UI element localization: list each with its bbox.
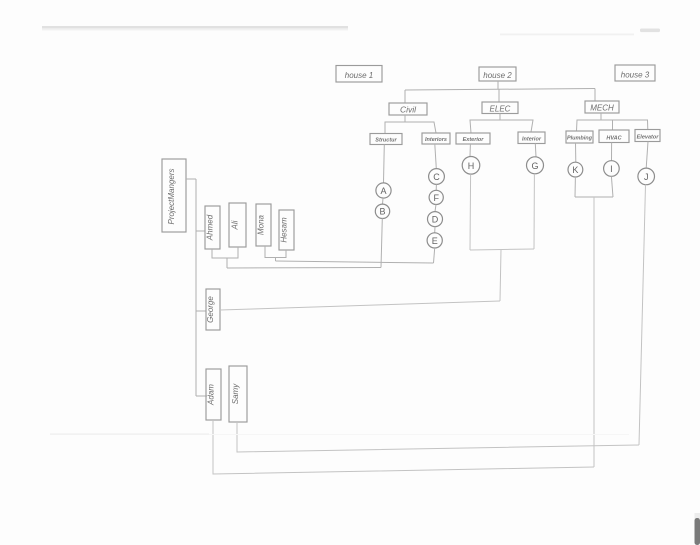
wire C to F <box>435 184 437 190</box>
scan smudge top middle <box>500 34 634 36</box>
svg-text:Plumbing: Plumbing <box>567 136 593 142</box>
wire KI drop long vertical <box>593 197 595 467</box>
faint paper crease bottom left <box>50 434 629 436</box>
wire ELEC to Interior child <box>500 120 533 132</box>
wire Exterior to H <box>469 144 471 156</box>
wire I down <box>611 176 613 197</box>
svg-text:C: C <box>433 172 440 182</box>
node D <box>428 212 443 227</box>
box Samy <box>229 366 247 422</box>
svg-text:HVAC: HVAC <box>606 136 622 142</box>
wire HVAC to I <box>611 143 613 161</box>
svg-text:J: J <box>644 172 649 182</box>
wire spine branch to George <box>196 310 206 312</box>
svg-text:house 3: house 3 <box>621 71 650 80</box>
box Ali <box>229 203 246 247</box>
svg-text:A: A <box>380 186 386 196</box>
box George <box>206 289 220 330</box>
wire Ahmed-Ali drop to bus1 <box>226 258 228 268</box>
svg-text:D: D <box>432 215 439 225</box>
svg-text:house 1: house 1 <box>345 71 373 80</box>
wire top connector bus <box>405 89 595 91</box>
wire G down <box>533 174 535 249</box>
box Project Managers <box>162 159 186 232</box>
wire spine branch to Ahmed <box>196 230 205 232</box>
svg-text:MECH: MECH <box>590 104 614 113</box>
wire spine branch to Adam <box>196 395 207 397</box>
wire A to B <box>382 198 385 204</box>
wire Mona-Hesam bracket <box>265 246 286 258</box>
node B <box>375 204 389 218</box>
wire J down long vertical <box>639 185 646 445</box>
wire H down <box>469 174 472 250</box>
wire George long line to HG drop <box>220 301 500 310</box>
wire MECH to Elevator child <box>613 120 648 130</box>
svg-text:Elevator: Elevator <box>637 135 660 141</box>
svg-text:Interior: Interior <box>522 137 542 143</box>
svg-text:E: E <box>432 236 438 246</box>
wire bus2 <box>276 261 434 263</box>
box MECH <box>585 101 619 113</box>
wire K-I connector <box>575 196 613 198</box>
wire Mona-Hesam drop to bus2 <box>275 258 277 262</box>
wire drop to Civil <box>404 90 406 103</box>
box HVAC <box>599 130 629 143</box>
wire house2 to top connector <box>497 81 499 90</box>
wire spine vertical <box>195 179 197 396</box>
box Structur <box>370 134 402 145</box>
svg-text:K: K <box>572 165 578 175</box>
svg-text:Ali: Ali <box>231 220 240 230</box>
svg-text:Civil: Civil <box>400 105 417 115</box>
svg-text:F: F <box>433 193 439 203</box>
svg-text:G: G <box>531 161 538 171</box>
node C <box>429 169 445 185</box>
wire ELEC to children connector <box>470 114 500 134</box>
node F <box>429 190 443 204</box>
svg-text:house 2: house 2 <box>483 71 512 80</box>
box house 2 <box>479 67 516 81</box>
node H <box>462 157 480 175</box>
svg-text:Hesam: Hesam <box>280 217 289 243</box>
wire K down <box>574 177 576 197</box>
wire H-G connector <box>470 249 534 250</box>
svg-text:Mona: Mona <box>257 214 266 235</box>
wire Elevator to J <box>646 142 648 169</box>
box Interior <box>518 132 545 144</box>
svg-text:I: I <box>610 164 613 174</box>
wire PM to spine <box>186 178 196 180</box>
svg-text:Interiors: Interiors <box>425 137 447 143</box>
box Hesam <box>279 210 294 250</box>
wire bus1 <box>227 267 381 270</box>
scrollbar fragment bottom right <box>695 513 700 545</box>
box Adam <box>206 369 221 420</box>
svg-text:Exterior: Exterior <box>463 137 485 143</box>
node J <box>638 168 655 185</box>
wire drop to MECH <box>594 89 596 102</box>
box Exterior <box>456 133 490 144</box>
box Walls <box>422 133 450 144</box>
box ELEC <box>482 102 518 114</box>
svg-text:Samy: Samy <box>231 383 240 404</box>
wire Civil to Walls child <box>405 122 436 133</box>
box Elevator <box>635 130 660 142</box>
box Mona <box>256 204 271 246</box>
wire HG drop to George line <box>500 250 501 302</box>
wire Walls to C <box>435 144 437 169</box>
svg-text:Ahmed: Ahmed <box>206 214 215 241</box>
wire D to E <box>434 227 436 233</box>
svg-text:George: George <box>206 296 215 323</box>
wire F to D <box>435 205 436 212</box>
scan smudge top left <box>42 26 348 30</box>
box Civil <box>389 103 427 115</box>
box Plumbing <box>566 131 593 143</box>
wire MECH to children connector <box>577 113 602 131</box>
wire B down to bus1 <box>381 219 382 268</box>
wire Adam down and long bottom line to KI vertical <box>213 420 594 474</box>
wire Civil to children connector <box>385 115 405 134</box>
node I <box>604 161 620 177</box>
wire Ahmed-Ali bracket <box>212 247 238 258</box>
wire MECH to HVAC child <box>601 120 613 130</box>
wire Structur to A <box>383 145 386 183</box>
svg-text:H: H <box>468 161 475 171</box>
svg-text:Adam: Adam <box>207 384 216 406</box>
svg-text:Structur: Structur <box>375 138 397 144</box>
node K <box>568 162 583 177</box>
box Ahmed <box>205 206 220 249</box>
svg-text:B: B <box>379 207 385 217</box>
box house 3 <box>615 65 655 81</box>
wire Interior to G <box>534 144 537 157</box>
wire Samy down and long bottom line to J vertical <box>237 422 639 452</box>
node A <box>376 183 391 198</box>
svg-text:ELEC: ELEC <box>490 105 511 114</box>
wire drop to ELEC <box>498 89 500 102</box>
scan smudge top right <box>640 29 660 33</box>
node G <box>527 157 544 174</box>
wire Plumbing to K <box>575 143 577 162</box>
box house 1 <box>336 66 382 83</box>
node E <box>427 233 442 248</box>
wire E down to bus2 <box>434 248 435 263</box>
svg-text:ProjectMangers: ProjectMangers <box>167 168 176 224</box>
